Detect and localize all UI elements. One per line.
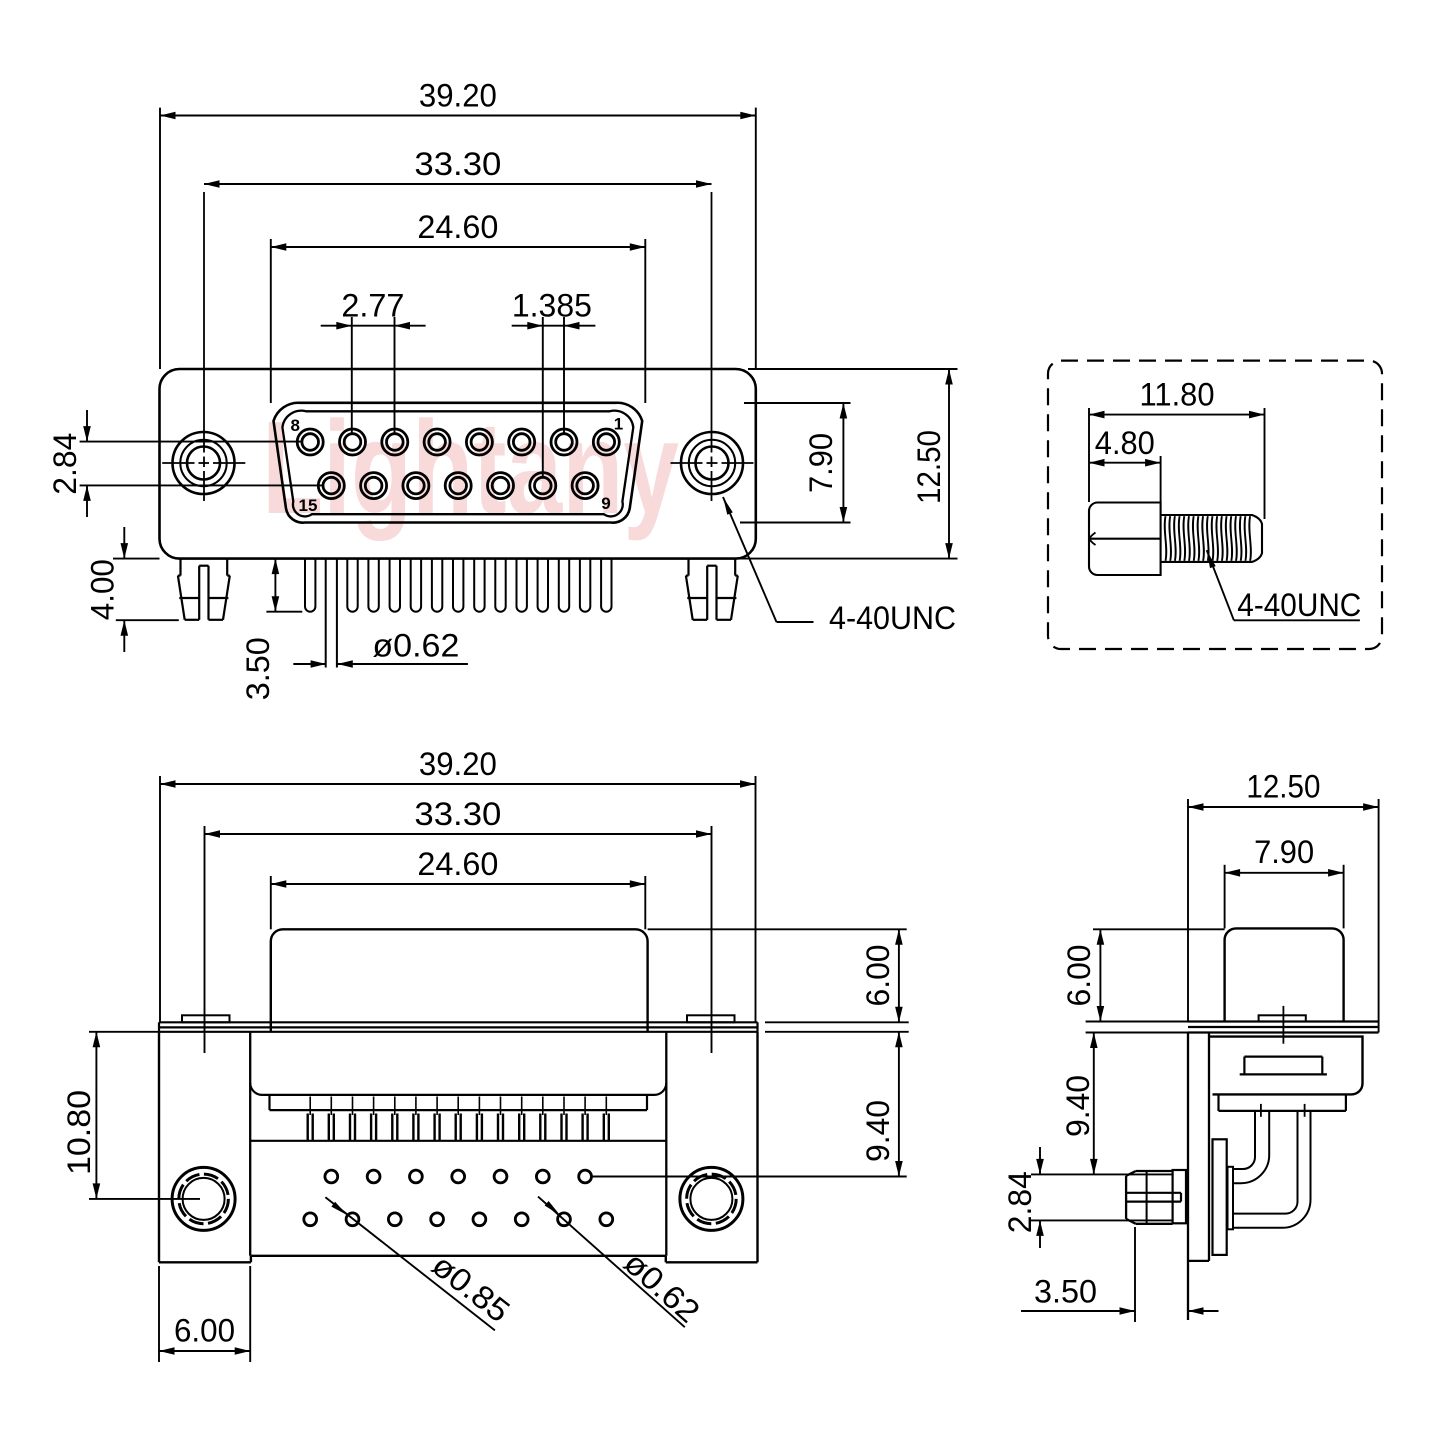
svg-text:7.90: 7.90 [803,433,839,493]
svg-text:4-40UNC: 4-40UNC [829,600,956,636]
svg-text:6.00: 6.00 [860,945,896,1007]
svg-text:4-40UNC: 4-40UNC [1237,587,1361,623]
svg-text:10.80: 10.80 [61,1090,97,1175]
svg-text:2.84: 2.84 [47,433,83,495]
svg-text:6.00: 6.00 [1061,945,1097,1007]
svg-text:33.30: 33.30 [414,796,501,832]
svg-text:6.00: 6.00 [174,1313,235,1349]
svg-text:8: 8 [291,416,300,435]
svg-text:3.50: 3.50 [1034,1274,1097,1310]
svg-text:3.50: 3.50 [240,637,276,700]
svg-text:11.80: 11.80 [1140,377,1215,413]
svg-text:2.84: 2.84 [1002,1171,1038,1233]
svg-text:39.20: 39.20 [419,77,497,113]
svg-text:24.60: 24.60 [417,209,498,245]
svg-text:15: 15 [299,496,318,515]
svg-text:24.60: 24.60 [417,846,498,882]
svg-text:12.50: 12.50 [1246,769,1320,805]
svg-text:1: 1 [614,415,623,434]
svg-text:4.00: 4.00 [85,559,121,620]
svg-text:1.385: 1.385 [512,288,592,324]
svg-text:9.40: 9.40 [1060,1075,1096,1137]
svg-text:ø0.62: ø0.62 [372,628,459,664]
svg-text:7.90: 7.90 [1254,834,1314,870]
svg-text:12.50: 12.50 [911,430,947,504]
svg-text:4.80: 4.80 [1095,425,1155,461]
svg-text:2.77: 2.77 [341,288,404,324]
svg-text:9: 9 [601,494,610,513]
svg-text:9.40: 9.40 [860,1100,896,1162]
svg-text:33.30: 33.30 [414,146,501,182]
svg-text:39.20: 39.20 [419,746,497,782]
